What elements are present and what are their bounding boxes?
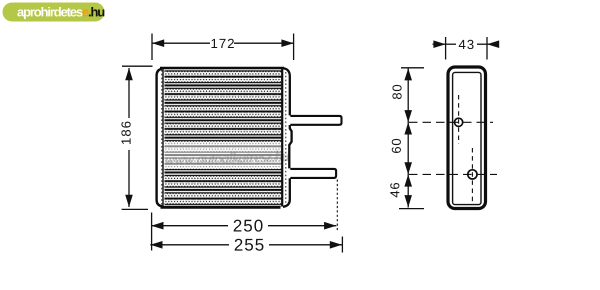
core top edge xyxy=(160,67,284,70)
label 60 xyxy=(392,139,401,153)
pipe hole 2 xyxy=(468,170,477,179)
left flange dotted boundary xyxy=(161,70,163,205)
watermark text xyxy=(165,150,289,165)
core right edge xyxy=(281,69,283,207)
dimension 250 xyxy=(151,180,337,251)
pipe hole 1 xyxy=(455,118,463,126)
side view inner line xyxy=(453,72,481,204)
dimension 186 xyxy=(121,66,152,209)
pipe 2 xyxy=(290,169,336,178)
centerline horizontal 1 xyxy=(409,121,493,123)
right tank flange edge xyxy=(283,68,290,115)
watermark band xyxy=(163,142,291,169)
pipe 1 xyxy=(290,116,341,125)
label 80 xyxy=(392,85,401,99)
logo pill xyxy=(3,3,105,22)
centerline horizontal 2 xyxy=(409,173,497,175)
side view outer body xyxy=(448,67,486,209)
right flange dotted boundary xyxy=(285,72,287,203)
centerline vertical 2 xyxy=(471,148,473,204)
core bottom edge xyxy=(161,206,281,209)
dimension 43 xyxy=(433,37,500,60)
core fins xyxy=(165,69,282,207)
core left edge xyxy=(162,67,164,208)
label 46 xyxy=(390,183,399,197)
dimension 172 xyxy=(152,34,294,61)
left tank flange xyxy=(157,69,163,206)
dimension chain 80/60/46 xyxy=(390,68,424,209)
dimension 255 xyxy=(150,237,342,253)
centerline vertical 1 xyxy=(458,95,460,144)
